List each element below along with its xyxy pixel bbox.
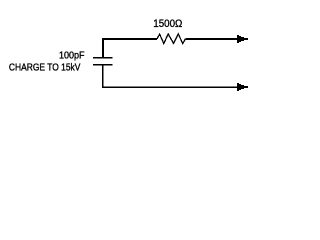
svg-text:100pF: 100pF — [59, 49, 85, 61]
svg-text:CHARGE TO 15kV: CHARGE TO 15kV — [9, 61, 81, 73]
svg-text:1500Ω: 1500Ω — [153, 18, 182, 30]
